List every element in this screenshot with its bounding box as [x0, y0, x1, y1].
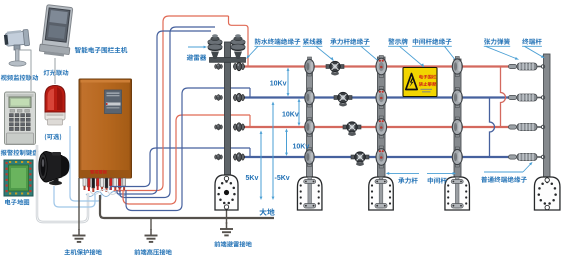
svg-text:10Kv: 10Kv — [270, 81, 287, 88]
svg-text:10Kv: 10Kv — [282, 112, 299, 119]
svg-text:10Kv: 10Kv — [293, 144, 310, 151]
svg-text:-5Kv: -5Kv — [275, 175, 290, 182]
svg-text:5Kv: 5Kv — [246, 175, 259, 182]
